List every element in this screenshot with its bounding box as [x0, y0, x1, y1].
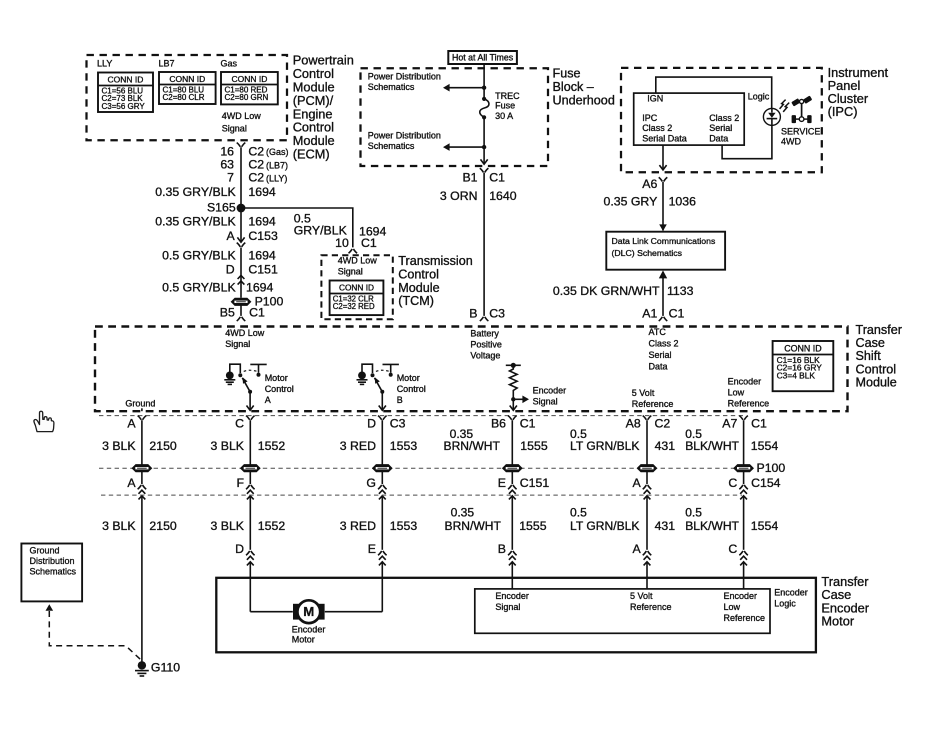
connector A/C153: [237, 237, 246, 247]
switch Motor Control B: [357, 364, 399, 410]
svg-text:C2: C2: [248, 171, 264, 185]
svg-text:1036: 1036: [669, 194, 697, 208]
svg-text:B: B: [397, 395, 403, 405]
wire lamp to logic (Data): [722, 125, 772, 158]
svg-text:Serial: Serial: [649, 350, 672, 360]
grommet P100 column A7: [734, 465, 753, 472]
svg-text:Serial Data: Serial Data: [642, 133, 687, 143]
pin label IGN: [647, 94, 663, 104]
svg-text:Module: Module: [398, 281, 439, 295]
svg-text:Control: Control: [265, 384, 294, 394]
wire ground run to G110: [141, 497, 143, 662]
svg-text:1694: 1694: [248, 185, 276, 199]
module PCM/ECM dashed box: [87, 55, 288, 140]
svg-text:Control: Control: [397, 384, 426, 394]
svg-text:A: A: [127, 476, 136, 490]
connector id table Gas: [221, 72, 278, 104]
module Transfer Case Encoder Motor box: [216, 578, 816, 653]
svg-text:C1: C1: [249, 306, 265, 320]
svg-text:A: A: [226, 229, 235, 243]
svg-text:C2=32 RED: C2=32 RED: [333, 302, 375, 311]
ground G110: [135, 661, 180, 676]
svg-text:Transfer: Transfer: [856, 323, 902, 337]
svg-text:Reference: Reference: [632, 399, 674, 409]
svg-text:CONN ID: CONN ID: [784, 343, 821, 353]
connector lower row column A8: [643, 485, 652, 499]
label Ground: [125, 398, 155, 408]
pin labels B1 C1: [462, 171, 505, 185]
fuse TREC 30A: [480, 97, 489, 120]
svg-text:63: 63: [220, 158, 234, 172]
svg-text:Ground: Ground: [125, 398, 155, 408]
label Encoder Low Reference (motor): [724, 591, 766, 623]
wire hot feed vertical: [483, 65, 485, 97]
svg-text:0.5 GRY/BLK: 0.5 GRY/BLK: [162, 281, 236, 295]
pin label A6: [642, 177, 657, 191]
svg-text:Module: Module: [856, 375, 897, 389]
svg-text:Positive: Positive: [470, 339, 502, 349]
svg-text:4WD Low: 4WD Low: [222, 111, 262, 121]
svg-text:A7: A7: [722, 416, 737, 430]
svg-text:CONN ID: CONN ID: [169, 74, 205, 84]
label 4WD Low Signal (module): [225, 328, 265, 349]
svg-text:431: 431: [655, 439, 676, 453]
svg-text:Voltage: Voltage: [470, 350, 500, 360]
svg-text:D: D: [235, 542, 244, 556]
wires P100 to lower connector: [142, 472, 744, 485]
svg-text:B5: B5: [220, 306, 235, 320]
connector D at module (female): [378, 416, 387, 420]
label 4WD Low Signal (PCM): [222, 111, 262, 134]
svg-text:BLK/WHT: BLK/WHT: [685, 519, 739, 533]
label ATC Class 2 Serial Data: [649, 327, 679, 372]
connector B6 at module (female): [508, 416, 517, 420]
svg-text:B6: B6: [491, 416, 506, 430]
svg-text:1554: 1554: [751, 439, 779, 453]
svg-text:D: D: [367, 416, 376, 430]
wire arrow to power distribution (bottom): [443, 143, 486, 151]
connector B5/C1 into transfer case module: [237, 317, 246, 321]
label 0.5 GRY/BLK 1694 (branch): [294, 212, 387, 239]
svg-text:Motor: Motor: [397, 373, 420, 383]
label P100: [757, 461, 786, 475]
label IPC Class 2 Serial Data: [642, 113, 687, 143]
svg-text:Encoder: Encoder: [533, 385, 567, 395]
label 0.35 GRY 1036: [604, 194, 697, 208]
label Powertrain Control Module (PCM)/Engine Control Module (ECM): [293, 53, 354, 162]
svg-text:Motor: Motor: [265, 373, 288, 383]
svg-text:3 BLK: 3 BLK: [102, 439, 136, 453]
svg-text:3 BLK: 3 BLK: [102, 519, 136, 533]
wire 0.35 GRY 1036: [662, 182, 664, 231]
svg-text:CONN ID: CONN ID: [339, 283, 374, 293]
connector id table LLY: [98, 73, 153, 113]
svg-text:3 BLK: 3 BLK: [211, 519, 245, 533]
svg-text:Shift: Shift: [856, 349, 882, 363]
svg-text:(LB7): (LB7): [266, 160, 288, 170]
label Encoder Signal (module): [533, 385, 567, 406]
svg-text:Schematics: Schematics: [368, 82, 415, 92]
svg-text:Case: Case: [856, 336, 885, 350]
svg-text:Encoder: Encoder: [774, 588, 808, 598]
svg-text:C153: C153: [248, 229, 278, 243]
wires lower harness: [250, 497, 743, 550]
svg-text:10: 10: [335, 236, 349, 250]
wire labels band 2: [102, 505, 778, 533]
label Instrument Panel Cluster (IPC): [828, 65, 889, 119]
svg-text:Signal: Signal: [222, 124, 247, 134]
connector id table TCM: [330, 281, 384, 316]
connector A1/C1 into transfer case module: [659, 317, 668, 321]
svg-text:C1: C1: [520, 416, 536, 430]
svg-text:M: M: [303, 604, 314, 619]
svg-text:(Gas): (Gas): [266, 147, 289, 157]
svg-text:IGN: IGN: [647, 94, 663, 104]
label Fuse Block - Underhood: [553, 67, 615, 108]
pin labels A1 C1: [642, 307, 684, 321]
svg-text:LT GRN/BLK: LT GRN/BLK: [570, 519, 639, 533]
motor M encoder motor: [293, 600, 325, 623]
label LLY: [97, 58, 112, 68]
connector D/C151: [226, 263, 278, 277]
lamp rays (lightning bolts): [780, 100, 790, 112]
svg-text:B: B: [469, 307, 477, 321]
svg-text:Reference: Reference: [724, 613, 766, 623]
svg-text:30 A: 30 A: [495, 111, 513, 121]
svg-text:Schematics: Schematics: [30, 567, 77, 577]
svg-text:Signal: Signal: [225, 339, 250, 349]
label Motor Control B: [397, 373, 426, 405]
connector A at module (female): [138, 416, 147, 420]
svg-text:Serial: Serial: [709, 123, 732, 133]
fuse block underhood dashed box: [361, 68, 549, 166]
wire IGN to indicator: [656, 77, 772, 109]
label 0.5 GRY/BLK 1694 (lower): [162, 281, 273, 295]
svg-text:C154: C154: [751, 476, 781, 490]
svg-text:A: A: [265, 395, 271, 405]
connector lower row column D: [378, 485, 387, 499]
svg-text:P100: P100: [757, 461, 786, 475]
svg-text:5 Volt: 5 Volt: [630, 591, 653, 601]
wire arrow to power distribution (top): [443, 84, 486, 92]
label Encoder Low Reference (module): [728, 377, 770, 409]
svg-text:Encoder: Encoder: [728, 377, 762, 387]
svg-text:1133: 1133: [667, 284, 694, 298]
svg-text:Data Link Communications: Data Link Communications: [612, 236, 716, 246]
svg-text:Fuse: Fuse: [495, 100, 515, 110]
connector 10/C1 at TCM: [335, 236, 377, 253]
connector C2 at PCM: [237, 143, 246, 147]
label Battery Positive Voltage: [470, 328, 502, 360]
svg-text:C1: C1: [361, 236, 377, 250]
connector A6 at IPC: [659, 165, 668, 181]
svg-text:Data: Data: [709, 133, 728, 143]
label 0.35 DK GRN/WHT 1133: [553, 284, 694, 298]
svg-text:3 RED: 3 RED: [340, 519, 376, 533]
label SERVICE 4WD: [781, 127, 820, 147]
connector lower row column A: [138, 485, 147, 499]
svg-text:Gas: Gas: [221, 58, 238, 68]
svg-text:A1: A1: [642, 307, 657, 321]
svg-text:Low: Low: [724, 602, 741, 612]
label LB7: [159, 58, 175, 68]
svg-text:SERVICE: SERVICE: [781, 127, 820, 137]
svg-text:C2=80 GRN: C2=80 GRN: [225, 93, 269, 102]
svg-text:Battery: Battery: [470, 328, 499, 338]
svg-text:B1: B1: [462, 171, 477, 185]
svg-text:G110: G110: [151, 661, 180, 675]
svg-text:C3: C3: [390, 416, 406, 430]
svg-text:0.35 GRY/BLK: 0.35 GRY/BLK: [155, 214, 236, 228]
label 3 ORN 1640: [440, 189, 517, 203]
svg-text:0.35: 0.35: [451, 505, 475, 519]
label Power Distribution Schematics (top): [368, 71, 441, 92]
wire labels band 1: [102, 427, 778, 453]
connector motor pin D: [235, 542, 254, 566]
svg-text:E: E: [368, 542, 376, 556]
svg-text:Signal: Signal: [338, 266, 363, 276]
connector lower row column A7: [739, 485, 748, 499]
svg-text:C2: C2: [655, 416, 671, 430]
svg-text:1553: 1553: [390, 439, 418, 453]
svg-text:1554: 1554: [751, 519, 779, 533]
wire 0.35 DK GRN/WHT 1133: [659, 270, 667, 316]
connector row dashed line (upper): [99, 415, 745, 417]
label Power Distribution Schematics (bottom): [368, 131, 441, 152]
label Transfer Case Shift Control Module: [856, 323, 902, 389]
svg-text:4WD Low: 4WD Low: [225, 328, 265, 338]
left sidebar bar: [0, 0, 9, 733]
svg-text:1640: 1640: [489, 189, 517, 203]
wire ground stub: [141, 408, 143, 411]
svg-text:ATC: ATC: [649, 327, 667, 337]
hand cursor: [34, 411, 54, 431]
pin rows 16/63/7 C2: [220, 144, 288, 158]
svg-text:Class 2: Class 2: [649, 338, 679, 348]
svg-text:E: E: [498, 476, 506, 490]
svg-text:CONN ID: CONN ID: [108, 75, 144, 85]
svg-text:F: F: [236, 476, 244, 490]
connector B1/C1 fuse block output: [480, 159, 489, 172]
svg-text:Hot at All Times: Hot at All Times: [452, 53, 514, 63]
svg-text:(DLC) Schematics: (DLC) Schematics: [612, 248, 683, 258]
node Data Link Communications (DLC) Schematics box: [606, 232, 725, 270]
svg-text:A: A: [632, 476, 641, 490]
connector motor pin E: [368, 542, 387, 566]
svg-text:1694: 1694: [248, 214, 276, 228]
icon SERVICE 4WD drivetrain: [792, 97, 812, 123]
svg-text:BLK/WHT: BLK/WHT: [685, 439, 739, 453]
label Transmission Control Module (TCM): [398, 254, 472, 308]
svg-text:Encoder: Encoder: [292, 625, 326, 635]
svg-text:C3: C3: [489, 307, 505, 321]
grommet P100 (left chain): [231, 295, 283, 309]
connector motor pin B: [498, 542, 517, 566]
IPC inner logic box: [634, 93, 745, 145]
svg-text:Power Distribution: Power Distribution: [368, 71, 441, 81]
label TREC Fuse 30 A: [495, 91, 520, 121]
svg-text:C1: C1: [489, 171, 505, 185]
connector B/C3 into transfer case module: [480, 317, 489, 321]
svg-text:(ECM): (ECM): [293, 147, 330, 162]
svg-text:BRN/WHT: BRN/WHT: [444, 439, 501, 453]
grommet dashed line P100: [99, 467, 753, 469]
svg-text:0.5: 0.5: [685, 505, 702, 519]
svg-text:7: 7: [227, 171, 234, 185]
splice S165: [207, 201, 245, 215]
grommet P100 column B6: [503, 465, 522, 472]
svg-text:Ground: Ground: [30, 546, 60, 556]
svg-text:(TCM): (TCM): [398, 294, 434, 308]
module TCM dashed box: [321, 255, 392, 319]
svg-text:BRN/WHT: BRN/WHT: [445, 519, 502, 533]
svg-text:0.35 DK GRN/WHT: 0.35 DK GRN/WHT: [553, 284, 660, 298]
svg-text:Data: Data: [649, 362, 668, 372]
label 0.35 GRY/BLK 1694 (second): [155, 214, 276, 228]
svg-text:C1: C1: [669, 307, 685, 321]
svg-text:2150: 2150: [149, 519, 177, 533]
connector C at module (female): [246, 416, 255, 420]
svg-text:431: 431: [655, 519, 676, 533]
svg-text:LT GRN/BLK: LT GRN/BLK: [570, 439, 639, 453]
svg-text:C151: C151: [248, 263, 278, 277]
svg-text:G: G: [366, 476, 376, 490]
svg-text:C: C: [728, 542, 737, 556]
wires into encoder motor: [250, 563, 743, 612]
svg-text:C2: C2: [248, 144, 264, 158]
svg-text:LLY: LLY: [97, 58, 112, 68]
wires module to P100: [142, 420, 744, 464]
connector A7 at module (female): [739, 416, 748, 420]
label 4WD Low Signal (TCM): [338, 255, 378, 276]
svg-text:16: 16: [220, 144, 234, 158]
svg-text:C2: C2: [248, 158, 264, 172]
svg-text:3 ORN: 3 ORN: [440, 189, 478, 203]
svg-text:Control: Control: [856, 362, 897, 376]
grommet P100 column C: [241, 465, 260, 472]
label Class 2 Serial Data (right col): [709, 113, 739, 143]
connector lower row column C: [246, 485, 255, 499]
svg-text:C3=56 GRY: C3=56 GRY: [102, 102, 146, 111]
svg-text:CONN ID: CONN ID: [231, 74, 267, 84]
module Transfer Case Shift Control Module dashed box: [95, 327, 848, 412]
svg-text:Logic: Logic: [774, 599, 796, 609]
svg-text:3 BLK: 3 BLK: [211, 439, 245, 453]
svg-text:1553: 1553: [390, 519, 418, 533]
label Encoder Logic: [774, 588, 808, 609]
switch Motor Control A: [224, 364, 266, 410]
grommet P100 column D: [373, 465, 392, 472]
wire to B5: [240, 305, 242, 316]
svg-text:A: A: [127, 416, 136, 430]
pin labels B C3: [469, 307, 505, 321]
svg-text:C: C: [728, 476, 737, 490]
svg-text:Motor: Motor: [292, 635, 315, 645]
svg-text:0.35 GRY: 0.35 GRY: [604, 194, 658, 208]
svg-text:0.5 GRY/BLK: 0.5 GRY/BLK: [162, 249, 236, 263]
svg-text:Class 2: Class 2: [642, 123, 672, 133]
svg-text:IPC: IPC: [642, 113, 658, 123]
connector A8 at module (female): [643, 416, 652, 420]
svg-text:Fuse: Fuse: [553, 67, 581, 81]
svg-text:(IPC): (IPC): [828, 104, 858, 119]
svg-text:Logic: Logic: [748, 91, 770, 101]
svg-text:Distribution: Distribution: [30, 556, 75, 566]
svg-text:1552: 1552: [258, 439, 286, 453]
grommet P100 column A: [132, 465, 151, 472]
svg-text:Signal: Signal: [533, 396, 558, 406]
svg-text:C2=80 CLR: C2=80 CLR: [163, 93, 205, 102]
svg-text:Control: Control: [398, 268, 439, 282]
svg-text:S165: S165: [207, 201, 236, 215]
svg-text:Encoder: Encoder: [495, 591, 529, 601]
wire splice branch to TCM: [241, 208, 353, 247]
pin labels A C D/C3 B6/C1 A8/C2 A7/C1: [127, 416, 767, 430]
label 5 Volt Reference (module): [632, 388, 674, 409]
wire motor feed left: [250, 611, 292, 613]
svg-text:Power Distribution: Power Distribution: [368, 131, 441, 141]
wire 0.5 GRY/BLK 1694 (mid): [240, 248, 242, 298]
wire IPC serial data down: [662, 145, 664, 170]
pin labels A F G E/C151 A C/C154: [127, 476, 780, 490]
svg-text:4WD Low: 4WD Low: [338, 255, 378, 265]
label Transfer Case Encoder Motor: [821, 574, 869, 629]
connector row dashed line (lower): [101, 494, 742, 496]
wire 0.35 GRY/BLK 1694 (upper): [240, 147, 242, 242]
resistor encoder signal pull-up: [506, 363, 529, 411]
encoder logic inner box: [475, 589, 770, 633]
svg-text:1694: 1694: [248, 249, 276, 263]
wire motor feed right: [325, 611, 383, 613]
svg-text:4WD: 4WD: [781, 137, 802, 147]
svg-text:D: D: [226, 263, 235, 277]
svg-text:0.35 GRY/BLK: 0.35 GRY/BLK: [155, 185, 236, 199]
svg-text:Schematics: Schematics: [368, 141, 415, 151]
svg-text:1552: 1552: [258, 519, 286, 533]
svg-text:A8: A8: [626, 416, 641, 430]
connector lower row column B6: [508, 485, 517, 499]
node Hot at All Times: [448, 51, 517, 64]
svg-text:C: C: [235, 416, 244, 430]
svg-text:A: A: [632, 542, 641, 556]
label 5 Volt Reference (motor): [630, 591, 672, 612]
label Motor Control A: [265, 373, 294, 405]
svg-text:Low: Low: [728, 388, 745, 398]
node Ground Distribution Schematics box: [21, 544, 82, 602]
label Encoder Motor: [292, 625, 326, 645]
connector id table TCSCM: [773, 341, 834, 391]
svg-text:C151: C151: [520, 476, 550, 490]
svg-text:A6: A6: [642, 177, 657, 191]
svg-text:Reference: Reference: [728, 399, 770, 409]
label Logic: [748, 91, 770, 101]
label Gas: [221, 58, 238, 68]
svg-text:Encoder: Encoder: [724, 591, 758, 601]
connector id table LB7: [159, 72, 216, 104]
svg-text:C3=4 BLK: C3=4 BLK: [777, 371, 816, 381]
svg-text:(LLY): (LLY): [266, 173, 287, 183]
connector motor pin C: [728, 542, 747, 566]
wire fuse output: [483, 117, 485, 164]
svg-text:Signal: Signal: [495, 602, 520, 612]
indicator lamp SERVICE 4WD: [763, 108, 780, 125]
module IPC dashed box: [621, 68, 822, 172]
label 0.35 GRY/BLK 1694: [155, 185, 276, 199]
svg-text:B: B: [498, 542, 506, 556]
svg-text:Transmission: Transmission: [398, 254, 472, 268]
svg-text:5 Volt: 5 Volt: [632, 388, 655, 398]
svg-text:LB7: LB7: [159, 58, 175, 68]
